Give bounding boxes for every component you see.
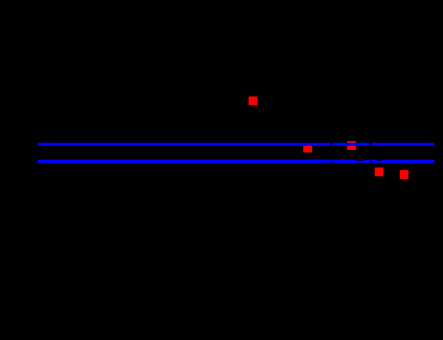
scatter point S4 (red square) xyxy=(375,168,384,177)
scatter point S3 (red square) xyxy=(347,141,356,150)
upper bound line segment A2 xyxy=(332,143,369,146)
lower band (middle + lower bound lines merged) xyxy=(38,160,434,163)
notch: middle line gap 1 xyxy=(358,159,364,161)
upper bound line segment A1 xyxy=(38,143,330,146)
scatter point S2 (red square) xyxy=(303,144,312,153)
notch: lower-bound line gap 1 xyxy=(330,161,332,163)
upper bound line segment A3 xyxy=(372,143,435,146)
notch: middle line gap 2 xyxy=(377,159,382,161)
notch: lower-bound line gap 2 xyxy=(370,161,372,163)
scatter point S5 (red square) xyxy=(400,170,409,179)
scatter point S1 (red square) xyxy=(249,97,258,106)
